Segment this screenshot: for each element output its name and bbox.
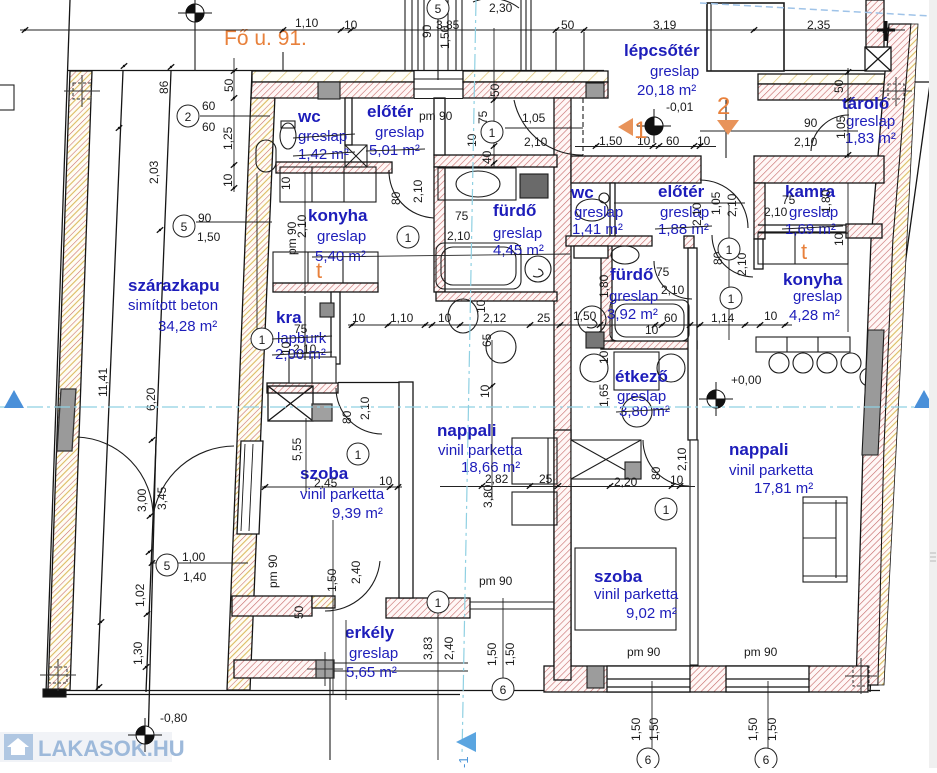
svg-text:10: 10 bbox=[379, 474, 393, 488]
svg-text:1,50: 1,50 bbox=[573, 309, 597, 323]
svg-text:9,39 m²: 9,39 m² bbox=[332, 505, 383, 522]
svg-text:1,50: 1,50 bbox=[765, 717, 779, 741]
washer furdo-left bbox=[525, 256, 551, 282]
svg-text:1,50: 1,50 bbox=[629, 717, 643, 741]
svg-text:10: 10 bbox=[474, 299, 488, 313]
svg-text:2,10: 2,10 bbox=[447, 229, 471, 243]
section triangle right bbox=[914, 390, 934, 408]
shaft X-box eloter-left bbox=[345, 145, 367, 167]
benchmark lepcsoter bbox=[637, 109, 671, 143]
dim vchain x494 bbox=[493, 28, 495, 168]
svg-text:1,69 m²: 1,69 m² bbox=[785, 221, 836, 238]
svg-text:1: 1 bbox=[728, 292, 735, 306]
wc fixtures below furdo-left bbox=[448, 299, 478, 333]
svg-text:3,45: 3,45 bbox=[155, 486, 169, 510]
strike lines kra bbox=[272, 336, 332, 355]
svg-text:5: 5 bbox=[181, 220, 188, 234]
door lepcsoter arc bbox=[514, 100, 583, 155]
section line horizontal bbox=[0, 406, 937, 408]
washer furdo-right bbox=[578, 306, 606, 334]
survey box bottom-left bbox=[40, 659, 76, 691]
benchmark bottom bbox=[128, 718, 162, 752]
dim vchain bottom 6 left bbox=[651, 681, 653, 748]
svg-text:40: 40 bbox=[480, 150, 494, 164]
svg-text:Fő u. 91.: Fő u. 91. bbox=[224, 27, 307, 50]
svg-text:1,80: 1,80 bbox=[597, 274, 611, 298]
svg-text:2,10: 2,10 bbox=[725, 193, 739, 217]
erkely floor lines bbox=[334, 662, 468, 664]
svg-text:1,14: 1,14 bbox=[711, 311, 735, 325]
toilet wc-right bbox=[576, 199, 608, 221]
wall building top B bbox=[463, 71, 608, 82]
wardrobe nappali-left bbox=[512, 438, 557, 484]
dim vchain x306 szoba-left bbox=[305, 418, 307, 492]
svg-text:greslap: greslap bbox=[846, 113, 895, 130]
wall szoba/nappali-left partition bbox=[399, 382, 413, 598]
porch arc top bbox=[473, 0, 519, 8]
svg-text:50: 50 bbox=[832, 79, 846, 93]
shaft X-box left unit bbox=[268, 386, 332, 421]
gray block middle shaft bbox=[625, 462, 641, 479]
strike lines kamra bbox=[782, 226, 843, 229]
svg-text:5,65 m²: 5,65 m² bbox=[346, 664, 397, 681]
svg-text:1,25: 1,25 bbox=[221, 126, 235, 150]
marker circle 1 szoba-right bbox=[655, 498, 677, 520]
svg-text:3,80: 3,80 bbox=[481, 484, 495, 508]
gray block bottom window bbox=[587, 666, 604, 688]
dim ticks left chain slant bbox=[157, 227, 163, 233]
svg-text:10: 10 bbox=[597, 350, 611, 364]
shaft X-box middle bbox=[571, 440, 641, 479]
svg-text:50: 50 bbox=[488, 83, 502, 97]
sofa nappali-right bbox=[803, 497, 847, 582]
svg-text:10: 10 bbox=[645, 323, 659, 337]
svg-text:1,50: 1,50 bbox=[503, 642, 517, 666]
wall party vertical center bbox=[554, 98, 571, 680]
svg-text:+0,00: +0,00 bbox=[731, 373, 762, 387]
svg-text:80: 80 bbox=[649, 466, 663, 480]
porch post lines bbox=[520, 0, 522, 70]
window bottom 1 bbox=[607, 666, 690, 692]
wall szoba-right left vertical bbox=[554, 430, 571, 680]
svg-text:10: 10 bbox=[344, 18, 358, 32]
svg-text:1,50: 1,50 bbox=[647, 717, 661, 741]
door entry right unit arc bbox=[700, 180, 748, 228]
wire site right boundary bbox=[896, 55, 934, 330]
wall furdo-right top bbox=[566, 236, 652, 246]
svg-text:25: 25 bbox=[537, 311, 551, 325]
stairs lines above wall A bbox=[404, 0, 406, 70]
svg-text:10: 10 bbox=[832, 232, 846, 246]
svg-text:3,92 m²: 3,92 m² bbox=[607, 306, 658, 323]
wall furdo-right left vertical bbox=[601, 239, 612, 349]
svg-text:2,40: 2,40 bbox=[349, 560, 363, 584]
wall nappali-left balcony band bbox=[386, 598, 470, 618]
wall eloter-left/furdo vertical upper bbox=[434, 98, 445, 155]
marker circle 1 erkely bbox=[427, 591, 449, 613]
svg-text:1,50: 1,50 bbox=[599, 134, 623, 148]
dark box furdo-left bbox=[520, 174, 548, 198]
svg-text:2,10: 2,10 bbox=[794, 135, 818, 149]
svg-text:10: 10 bbox=[221, 173, 235, 187]
svg-text:1,65: 1,65 bbox=[597, 383, 611, 407]
svg-text:tároló: tároló bbox=[842, 94, 889, 113]
svg-text:2,10: 2,10 bbox=[358, 396, 372, 420]
svg-text:1: 1 bbox=[634, 117, 647, 144]
svg-text:1,50: 1,50 bbox=[325, 568, 339, 592]
survey box top-right bbox=[880, 77, 912, 106]
svg-text:pm 90: pm 90 bbox=[266, 554, 280, 588]
svg-text:vinil parketta: vinil parketta bbox=[300, 486, 385, 503]
dim vchain bottom 6 right bbox=[767, 681, 769, 748]
wall wc/eloter bottom (left unit) bbox=[276, 162, 392, 173]
svg-text:fürdő: fürdő bbox=[493, 201, 536, 220]
strike lines eloter-right bbox=[655, 226, 712, 229]
svg-text:10: 10 bbox=[352, 311, 366, 325]
bed szoba-right bbox=[575, 548, 676, 630]
svg-text:2,20: 2,20 bbox=[614, 475, 638, 489]
dim chain nappali-left row bbox=[440, 486, 695, 488]
svg-text:60: 60 bbox=[202, 120, 216, 134]
dim line eloter pm bbox=[505, 127, 583, 129]
etkezo table bbox=[614, 352, 659, 390]
svg-text:simított beton: simított beton bbox=[128, 297, 218, 314]
svg-text:2,10: 2,10 bbox=[764, 205, 788, 219]
wall konyha/furdo-left vertical bbox=[434, 167, 445, 292]
wire site right boundary horizontal bbox=[897, 81, 937, 83]
svg-text:vinil parketta: vinil parketta bbox=[594, 586, 679, 603]
svg-text:3,19: 3,19 bbox=[653, 18, 677, 32]
dim chain top main bbox=[20, 29, 905, 31]
door konyha-right arc bbox=[712, 235, 753, 277]
svg-text:greslap: greslap bbox=[609, 288, 658, 305]
svg-text:greslap: greslap bbox=[349, 645, 398, 662]
wall szoba-left/nappali bottom band bbox=[232, 596, 312, 616]
svg-text:4,45 m²: 4,45 m² bbox=[493, 242, 544, 259]
konyha-left upper cabinets bbox=[280, 167, 376, 202]
wall kamra top row bbox=[754, 156, 884, 183]
wall right outer yellow edge bbox=[878, 24, 918, 685]
wall wc-right / eloter-right top row bbox=[571, 156, 701, 183]
orange marker 2 with triangle bbox=[717, 93, 739, 135]
benchmark nappali-right bbox=[699, 382, 733, 416]
marker circle 5 lower bbox=[156, 554, 178, 576]
svg-text:1: 1 bbox=[259, 333, 266, 347]
dim vchain x439 bbox=[437, 594, 439, 760]
dim vchain x848 tarolo bbox=[847, 68, 849, 158]
wall building top C bbox=[758, 74, 886, 84]
svg-text:LAKASOK.HU: LAKASOK.HU bbox=[38, 736, 185, 761]
dim circle2 line bbox=[200, 115, 270, 117]
wall building bottom band bbox=[544, 666, 868, 692]
marker circle 1 konyha-right bbox=[720, 287, 742, 309]
door konyha-left arc bbox=[389, 170, 434, 218]
svg-text:1,83 m²: 1,83 m² bbox=[845, 130, 896, 147]
svg-text:1,02: 1,02 bbox=[133, 583, 147, 607]
dim vline kamra bbox=[847, 183, 849, 332]
kamra cabinets bbox=[758, 233, 848, 264]
marker circle 6 bottom left bbox=[492, 678, 514, 700]
svg-text:2,30: 2,30 bbox=[489, 1, 513, 15]
door szoba-right arc bbox=[643, 440, 689, 486]
bathtub furdo-right bbox=[610, 300, 689, 341]
svg-text:10: 10 bbox=[670, 473, 684, 487]
scrollbar strip bbox=[929, 0, 937, 768]
dim vchain x333 erkely bbox=[332, 520, 334, 695]
svg-text:fürdő: fürdő bbox=[610, 265, 653, 284]
wall building left outer bbox=[227, 71, 276, 690]
svg-text:1,05: 1,05 bbox=[522, 111, 546, 125]
marker circle 2 bbox=[177, 105, 199, 127]
wall building right outer bbox=[856, 24, 911, 685]
svg-text:6: 6 bbox=[645, 753, 652, 767]
svg-text:lépcsőtér: lépcsőtér bbox=[624, 41, 700, 60]
svg-text:10: 10 bbox=[764, 309, 778, 323]
svg-text:2,10: 2,10 bbox=[295, 214, 309, 238]
black bar bottom-left corner bbox=[43, 689, 66, 697]
wall furdo-left bottom bbox=[436, 292, 557, 301]
benchmark top bbox=[178, 0, 212, 30]
svg-text:9,02 m²: 9,02 m² bbox=[626, 605, 677, 622]
gray pillar wall B bbox=[586, 83, 604, 98]
svg-text:greslap: greslap bbox=[493, 225, 542, 242]
svg-text:6: 6 bbox=[500, 683, 507, 697]
section triangle left bbox=[4, 390, 24, 408]
svg-text:10: 10 bbox=[697, 134, 711, 148]
dim chain lepcsoter row bbox=[575, 146, 716, 148]
wall kamra bottom bbox=[846, 224, 882, 238]
wall furdo-left top bbox=[434, 155, 557, 167]
wall konyha-right west stub bbox=[754, 239, 763, 269]
svg-text:1: 1 bbox=[355, 448, 362, 462]
svg-text:1: 1 bbox=[435, 596, 442, 610]
section triangle bottom bbox=[456, 732, 476, 752]
svg-text:10: 10 bbox=[478, 384, 492, 398]
svg-text:1: 1 bbox=[489, 126, 496, 140]
etkezo chairs bbox=[580, 354, 608, 382]
wire site top boundary bbox=[67, 70, 604, 72]
svg-text:1: 1 bbox=[405, 231, 412, 245]
wall kra east partition bbox=[331, 292, 340, 364]
door lepcsoter leaf dashed bbox=[582, 98, 584, 155]
wire szarazkapu chain line bbox=[148, 440, 156, 745]
wall left gray gate panel bbox=[57, 389, 76, 451]
fat cross top right dim end bbox=[877, 21, 895, 41]
dim line tarolo bbox=[700, 130, 858, 132]
svg-text:90: 90 bbox=[420, 24, 434, 38]
stairwell box outline bbox=[707, 3, 784, 71]
svg-text:50: 50 bbox=[561, 18, 575, 32]
toilet wc-left bbox=[280, 123, 296, 149]
svg-text:1,30: 1,30 bbox=[131, 641, 145, 665]
wall building top A bbox=[252, 71, 414, 82]
svg-text:konyha: konyha bbox=[308, 206, 368, 225]
dim chain szoba-left row bbox=[262, 486, 402, 488]
wall wc/eloter-left partition bbox=[345, 98, 352, 145]
svg-text:90: 90 bbox=[198, 211, 212, 225]
marker circle 6 bottom m1 bbox=[637, 748, 659, 770]
svg-text:wc: wc bbox=[297, 107, 321, 126]
wall eloter/kamra vertical bbox=[754, 183, 765, 239]
svg-text:1,50: 1,50 bbox=[485, 642, 499, 666]
svg-text:1,40: 1,40 bbox=[183, 570, 207, 584]
svg-text:86: 86 bbox=[157, 80, 171, 94]
svg-text:nappali: nappali bbox=[729, 440, 789, 459]
svg-text:2,82: 2,82 bbox=[485, 472, 509, 486]
svg-text:60: 60 bbox=[666, 134, 680, 148]
svg-text:10: 10 bbox=[465, 133, 479, 147]
door szoba-left arc bbox=[325, 561, 380, 611]
wire site left boundary bbox=[46, 0, 70, 693]
svg-text:wc: wc bbox=[570, 183, 594, 202]
dim vchain x346 erkely2 bbox=[345, 620, 347, 700]
svg-text:1,05: 1,05 bbox=[709, 191, 723, 215]
window bottom 2 bbox=[726, 666, 809, 692]
svg-text:2: 2 bbox=[185, 110, 192, 124]
wire szarazkapu boundary line 2 bbox=[146, 71, 171, 692]
section line vertical bbox=[462, 0, 476, 756]
small box left edge top bbox=[0, 85, 14, 110]
strike line konyha-left-area bbox=[312, 254, 570, 257]
kra closet bbox=[289, 357, 336, 383]
bathtub furdo-left bbox=[436, 243, 521, 289]
strike lines wc-left bbox=[293, 134, 355, 156]
shaft X-box top right corner bbox=[865, 47, 891, 71]
window top A opening bbox=[414, 79, 463, 89]
svg-text:17,81 m²: 17,81 m² bbox=[754, 480, 813, 497]
svg-text:2,03: 2,03 bbox=[147, 160, 161, 184]
survey cross erkely bbox=[307, 652, 343, 686]
wall szoba/nappali-right partition bbox=[690, 440, 698, 665]
svg-text:50: 50 bbox=[292, 605, 306, 619]
svg-text:1,50: 1,50 bbox=[746, 717, 760, 741]
svg-text:greslap: greslap bbox=[793, 288, 842, 305]
svg-text:6: 6 bbox=[763, 753, 770, 767]
svg-text:10: 10 bbox=[438, 311, 452, 325]
svg-text:1,10: 1,10 bbox=[295, 16, 319, 30]
survey box bottom-right bbox=[845, 658, 877, 694]
wall left neighbour hatched strip bbox=[48, 71, 92, 690]
dim circle5b line bbox=[150, 562, 248, 564]
window left wall szoba bbox=[237, 441, 263, 534]
konyha-right counter bbox=[756, 337, 850, 352]
survey box top-left bbox=[64, 75, 100, 107]
wire site bottom boundary bbox=[46, 690, 880, 692]
svg-text:1,41 m²: 1,41 m² bbox=[572, 221, 623, 238]
svg-text:-1: -1 bbox=[456, 756, 471, 768]
konyha-right chairs bbox=[769, 353, 789, 373]
svg-text:vinil parketta: vinil parketta bbox=[729, 462, 814, 479]
gate arc left bbox=[77, 437, 153, 516]
wall erkely slab bbox=[234, 660, 326, 678]
wall stairwell north band bbox=[866, 0, 884, 47]
svg-text:greslap: greslap bbox=[650, 63, 699, 80]
strike line etkezo bbox=[616, 409, 670, 412]
svg-text:2,40: 2,40 bbox=[442, 636, 456, 660]
svg-text:t: t bbox=[801, 239, 807, 264]
gray glass panel right wall bbox=[862, 330, 884, 455]
svg-text:20,18 m²: 20,18 m² bbox=[637, 82, 696, 99]
svg-text:2,35: 2,35 bbox=[807, 18, 831, 32]
svg-text:4,28 m²: 4,28 m² bbox=[789, 307, 840, 324]
svg-text:vinil parketta: vinil parketta bbox=[438, 442, 523, 459]
svg-text:pm 90: pm 90 bbox=[744, 645, 778, 659]
svg-text:75: 75 bbox=[455, 209, 469, 223]
marker circle 6 bottom m2 bbox=[755, 748, 777, 770]
gray pillar wall A bbox=[318, 82, 340, 99]
svg-text:pm 90: pm 90 bbox=[627, 645, 661, 659]
svg-text:nappali: nappali bbox=[437, 421, 497, 440]
svg-text:2,10: 2,10 bbox=[524, 135, 548, 149]
wall konyha-left bottom bbox=[273, 283, 378, 292]
svg-text:1,10: 1,10 bbox=[390, 311, 414, 325]
svg-text:greslap: greslap bbox=[375, 124, 424, 141]
svg-text:1,42 m²: 1,42 m² bbox=[298, 146, 349, 163]
svg-text:greslap: greslap bbox=[574, 204, 623, 221]
door kra arc bbox=[336, 388, 382, 434]
svg-text:erkély: erkély bbox=[345, 623, 395, 642]
svg-text:étkező: étkező bbox=[615, 367, 668, 386]
door furdo-right arc bbox=[654, 261, 692, 299]
wall furdo-right east bbox=[688, 248, 697, 440]
wall furdo-right bottom bbox=[601, 341, 697, 349]
svg-text:75: 75 bbox=[656, 265, 670, 279]
svg-text:50: 50 bbox=[222, 78, 236, 92]
svg-text:10: 10 bbox=[279, 176, 293, 190]
svg-text:1,50: 1,50 bbox=[197, 230, 221, 244]
svg-text:25: 25 bbox=[539, 472, 553, 486]
dim chain middle row bbox=[348, 324, 792, 326]
svg-text:1,50: 1,50 bbox=[438, 25, 452, 49]
svg-text:előtér: előtér bbox=[367, 102, 414, 121]
marker circle 1 kra bbox=[251, 328, 273, 350]
orange marker 1 with triangle bbox=[618, 117, 647, 144]
dim vchain x234 bbox=[233, 58, 235, 192]
strike line 5,01 bbox=[366, 149, 425, 151]
svg-text:2,10: 2,10 bbox=[690, 202, 704, 226]
kra gray box bbox=[320, 303, 334, 317]
dim circle5a line bbox=[196, 221, 272, 223]
svg-text:2,10: 2,10 bbox=[411, 179, 425, 203]
window nappali-left balcony bbox=[470, 601, 554, 603]
svg-text:szárazkapu: szárazkapu bbox=[128, 276, 220, 295]
svg-text:greslap: greslap bbox=[317, 228, 366, 245]
svg-text:5: 5 bbox=[164, 559, 171, 573]
konyha-left lower cabinets bbox=[273, 252, 378, 283]
wall wc/eloter-right partition bbox=[610, 183, 615, 236]
svg-text:5: 5 bbox=[435, 2, 442, 16]
svg-text:3,00: 3,00 bbox=[135, 488, 149, 512]
svg-text:1,80: 1,80 bbox=[819, 189, 833, 213]
door tarolo arc bbox=[811, 115, 849, 151]
sink counter furdo-left bbox=[438, 168, 516, 200]
svg-text:3,83: 3,83 bbox=[421, 636, 435, 660]
gate arc right bbox=[153, 446, 234, 516]
svg-text:-0,80: -0,80 bbox=[160, 711, 188, 725]
marker circle 5 top bbox=[427, 0, 449, 19]
svg-text:pm 90: pm 90 bbox=[479, 574, 513, 588]
svg-text:65: 65 bbox=[480, 333, 494, 347]
marker circle 5 left bbox=[173, 215, 195, 237]
svg-text:10: 10 bbox=[279, 341, 293, 355]
svg-text:11,41: 11,41 bbox=[96, 368, 110, 397]
svg-text:5,55: 5,55 bbox=[290, 437, 304, 461]
svg-text:80: 80 bbox=[340, 410, 354, 424]
svg-text:90: 90 bbox=[804, 116, 818, 130]
marker circle 1 eloter-right bbox=[718, 238, 740, 260]
watermark bar bbox=[0, 732, 172, 762]
marker circle 1 szoba-left bbox=[347, 443, 369, 465]
